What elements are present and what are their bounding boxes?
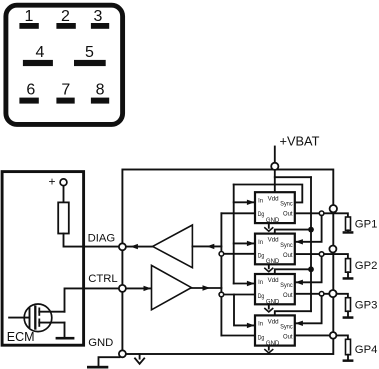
CTRL amp output arrowhead [203, 285, 211, 290]
junction dg2 on dg bus [219, 252, 224, 257]
junction out3 sync branch [319, 292, 324, 297]
junction out2 sync branch [319, 252, 324, 257]
U4 ground stem [268, 346, 270, 350]
pin 1 pad [19, 23, 38, 29]
svg-text:GND: GND [88, 337, 113, 349]
wire out1 to GP1 [295, 213, 348, 217]
common ground bar bottom left [87, 366, 108, 369]
in4 arrowhead [247, 323, 255, 328]
wire source to ECM ground [64, 323, 66, 337]
wire vdd3 [275, 269, 311, 274]
svg-text:5: 5 [85, 44, 94, 61]
svg-text:Vdd: Vdd [268, 195, 279, 202]
DIAG amp input wire [192, 245, 221, 247]
GP3 ground bar [343, 316, 354, 319]
svg-text:GND: GND [266, 340, 280, 347]
wire dg2 [221, 253, 255, 255]
wire out2 to GP2 [295, 254, 348, 259]
wire vdd4 [275, 311, 311, 315]
wire out3 to GP3 [295, 294, 348, 298]
GP1 ground stem [347, 230, 349, 231]
svg-text:CTRL: CTRL [88, 273, 118, 285]
svg-text:Dg: Dg [258, 334, 265, 341]
wire sync4 from out3 [295, 296, 321, 323]
svg-text:Out: Out [283, 252, 293, 259]
U4 ground arrow [265, 350, 273, 353]
svg-text:1: 1 [25, 8, 34, 25]
dg bus vertical [220, 213, 222, 335]
svg-text:8: 8 [96, 81, 105, 98]
glow plug GP4 resistor [346, 339, 351, 354]
in2 arrowhead [247, 241, 255, 246]
resistor in ECM [58, 202, 69, 233]
op-amp buffer A1 DIAG [153, 225, 193, 268]
wire dg3 with in4 branch [221, 294, 255, 296]
transistor Q1 gate lead [9, 317, 29, 319]
in1 arrowhead [247, 200, 255, 205]
sync3 arrowhead [295, 280, 303, 285]
driver U2 box [255, 234, 295, 265]
svg-text:+: + [48, 175, 55, 189]
vdd bus vertical [310, 177, 312, 311]
svg-text:Out: Out [283, 210, 293, 217]
transistor Q1 channel bar [34, 307, 36, 329]
module box outline [122, 170, 333, 355]
pin 3 pad [91, 23, 109, 29]
junction dg3 on dg bus [219, 292, 224, 297]
glow plug GP1 resistor [346, 217, 351, 230]
svg-text:6: 6 [26, 81, 35, 98]
pin 7 pad [56, 98, 74, 104]
svg-text:GND: GND [266, 299, 280, 306]
svg-text:Dg: Dg [258, 253, 265, 260]
svg-text:Dg: Dg [258, 211, 265, 218]
svg-text:4: 4 [36, 44, 45, 61]
svg-text:Vdd: Vdd [268, 277, 279, 284]
glow plug GP3 resistor [346, 298, 351, 312]
svg-text:2: 2 [61, 8, 70, 25]
wire VBAT into module to U1 Vdd [274, 170, 276, 193]
transistor Q1 gate bar [29, 308, 31, 327]
glow plug GP2 resistor [346, 259, 351, 273]
driver U4 box [255, 315, 295, 345]
node DIAG terminal [119, 243, 126, 250]
relay connector socket outline [6, 5, 123, 124]
module internal ground arrow stem [139, 354, 141, 358]
wire vdd2 [275, 230, 311, 234]
node output 3 terminal [329, 290, 336, 297]
svg-text:GP3: GP3 [355, 299, 378, 311]
svg-text:In: In [258, 197, 263, 204]
svg-text:GP2: GP2 [355, 260, 378, 272]
svg-text:3: 3 [94, 8, 103, 25]
DIAG amp output wire [126, 246, 153, 248]
U2 ground arrow [265, 268, 273, 271]
svg-text:Vdd: Vdd [268, 237, 279, 244]
GP2 ground stem [347, 272, 349, 277]
pin 4 pad [23, 60, 53, 66]
ECM box outline [2, 172, 84, 346]
svg-text:Vdd: Vdd [268, 319, 279, 326]
sync4 arrowhead [295, 321, 303, 326]
node output 2 terminal [329, 246, 336, 253]
svg-text:ECM: ECM [7, 330, 35, 344]
wire supply to resistor [63, 186, 65, 203]
svg-text:Sync: Sync [280, 282, 293, 289]
op-amp buffer A2 CTRL [152, 265, 192, 309]
svg-text:In: In [258, 279, 263, 286]
svg-text:+VBAT: +VBAT [280, 134, 320, 149]
in4 branch bus [234, 295, 255, 326]
in bus vertical [233, 185, 235, 284]
svg-text:Dg: Dg [258, 293, 265, 300]
wire sync1 master loop [234, 185, 303, 203]
svg-text:In: In [258, 239, 263, 246]
svg-text:GP1: GP1 [355, 218, 378, 230]
GP2 ground bar [343, 277, 354, 280]
GP1 ground bar [343, 231, 354, 234]
wire dg1 [221, 212, 255, 214]
wire drain to CTRL pin [65, 288, 119, 311]
transistor Q1 drain tab [38, 308, 40, 315]
in3 arrowhead [247, 281, 255, 286]
node output 4 terminal [330, 332, 337, 339]
U3 ground stem [268, 305, 270, 309]
node +VBAT terminal [271, 163, 278, 170]
DIAG amp input arrowhead [207, 244, 215, 249]
svg-text:Out: Out [283, 292, 293, 299]
GP4 ground stem [347, 355, 349, 360]
driver IC pin labels [258, 195, 293, 347]
driver U1 box [255, 192, 295, 223]
wire GND pin to ECM ground bar [99, 357, 120, 366]
module internal ground arrow [135, 358, 144, 363]
GP4 ground bar [343, 359, 354, 362]
junction dot vdd3 [308, 266, 314, 272]
transistor Q1 circle [24, 304, 52, 332]
U2 ground stem [268, 265, 270, 269]
CTRL input arrowhead [144, 286, 152, 291]
transistor Q1 drain lead [39, 311, 64, 313]
svg-text:DIAG: DIAG [88, 233, 116, 245]
wire VBAT rail to vdd bus [275, 176, 311, 178]
supply terminal circle [60, 179, 67, 186]
svg-text:Sync: Sync [280, 200, 293, 207]
wire out4 to GP4 [295, 335, 348, 339]
ECM ground bar [56, 337, 75, 340]
pin 5 pad [74, 60, 106, 66]
transistor Q1 source lead [39, 322, 64, 324]
svg-text:GP4: GP4 [355, 344, 378, 356]
svg-text:Sync: Sync [280, 242, 293, 249]
node output 1 terminal [330, 205, 337, 212]
svg-text:GND: GND [266, 258, 280, 265]
node CTRL terminal [119, 285, 126, 292]
pin 8 pad [91, 98, 109, 104]
node GND terminal [119, 350, 126, 357]
wire sync3 from out2 [295, 256, 321, 282]
driver U3 box [255, 274, 295, 304]
wire dg4 [221, 335, 255, 337]
DIAG amp output arrowhead [130, 244, 138, 249]
svg-text:GND: GND [266, 217, 280, 224]
U1 ground stem [268, 223, 270, 227]
+VBAT stem wire [274, 147, 276, 164]
U3 ground arrow [265, 309, 273, 312]
CTRL amp output wire [191, 287, 221, 289]
GP3 ground stem [347, 311, 349, 316]
wire resistor to DIAG pin [64, 234, 119, 247]
sync2 arrowhead [295, 239, 303, 244]
U1 ground arrow [265, 228, 273, 231]
svg-text:7: 7 [61, 81, 70, 98]
CTRL input wire [126, 287, 152, 289]
wire in3 [234, 283, 255, 285]
junction out1 sync branch [319, 211, 324, 216]
pin 6 pad [19, 98, 38, 104]
svg-text:In: In [258, 321, 263, 328]
wire in1 [234, 201, 255, 203]
junction dot vdd2 [308, 227, 314, 233]
svg-text:Out: Out [283, 334, 293, 341]
pin 2 pad [56, 23, 75, 29]
wire sync2 from out1 [295, 216, 321, 242]
wire in2 [234, 242, 255, 244]
svg-text:Sync: Sync [280, 324, 293, 331]
transistor Q1 source tab [38, 319, 40, 326]
